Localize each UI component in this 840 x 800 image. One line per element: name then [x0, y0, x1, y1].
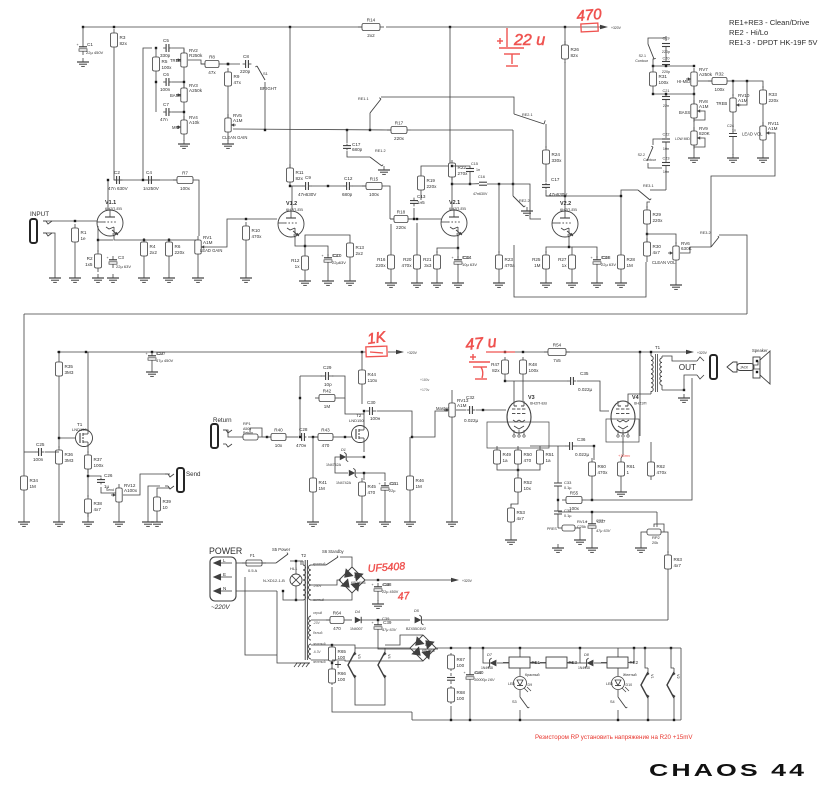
svg-text:3x3: 3x3	[424, 263, 432, 268]
wire C12-R15	[352, 185, 366, 187]
ground R41	[307, 518, 319, 526]
capacitor C24	[727, 124, 737, 141]
resistor R21	[423, 251, 440, 273]
svg-text:MID: MID	[172, 125, 180, 130]
svg-text:R18: R18	[397, 210, 406, 215]
wire RV8-RV9	[693, 118, 695, 131]
svg-text:0.5 A: 0.5 A	[248, 568, 257, 573]
svg-text:S1: S1	[263, 71, 269, 76]
svg-text:220x: 220x	[769, 98, 780, 103]
svg-text:470: 470	[368, 490, 376, 495]
potentiometer RV3	[170, 83, 203, 106]
wire R21 gnd	[436, 273, 438, 279]
ground R6	[163, 274, 175, 282]
wire V1.2 plate row	[290, 185, 303, 187]
capacitor C33	[554, 476, 572, 493]
svg-text:1n250V: 1n250V	[143, 186, 160, 191]
svg-text:1M: 1M	[324, 404, 331, 409]
relay contact RE3.1	[638, 184, 654, 200]
wire RV1 wiper to V1.2	[206, 219, 277, 247]
svg-text:1N4148: 1N4148	[481, 666, 493, 670]
svg-text:R61: R61	[627, 464, 636, 469]
svg-text:0.1µ: 0.1µ	[564, 486, 572, 490]
wire cath to C10	[305, 246, 328, 256]
capacitor C31	[379, 481, 399, 494]
wire L	[236, 562, 246, 564]
pentode V3	[507, 395, 547, 437]
junction	[331, 659, 333, 661]
junction	[304, 245, 306, 247]
svg-text:10x: 10x	[524, 486, 532, 491]
wire heat to D6	[385, 647, 410, 649]
red note 1K resistor	[366, 328, 388, 356]
resistor R63	[665, 551, 683, 573]
junction	[142, 179, 144, 181]
wire input sleeve	[43, 233, 55, 274]
wire C6-RV2b	[172, 81, 184, 83]
wire RE3.2 out	[719, 235, 747, 314]
wire R29-R30	[646, 228, 648, 242]
resistor R3	[111, 29, 128, 51]
wire V2 drop	[449, 27, 451, 163]
capacitor C36	[566, 437, 590, 457]
svg-text:C20: C20	[663, 57, 670, 61]
capacitor C23	[662, 157, 670, 175]
svg-text:4x7: 4x7	[653, 250, 661, 255]
capacitor C17b	[343, 142, 363, 152]
svg-text:Contour: Contour	[635, 59, 649, 63]
resistor R40	[267, 428, 290, 449]
svg-text:L: L	[223, 558, 226, 563]
svg-text:-6.3V: -6.3V	[313, 650, 321, 654]
wire ts2 to RE3.1	[650, 189, 666, 191]
wire ts2 busL	[652, 66, 654, 72]
svg-text:CLEAN GAIN: CLEAN GAIN	[222, 135, 247, 140]
resistor R2	[85, 250, 101, 272]
junction	[568, 246, 570, 248]
wire RE1 top	[519, 648, 521, 657]
svg-text:R4: R4	[150, 244, 156, 249]
potentiometer RV8	[679, 99, 709, 122]
capacitor C14	[452, 255, 472, 268]
svg-text:R17: R17	[395, 121, 404, 126]
capacitor C10	[322, 253, 342, 266]
arrow +320V supply	[600, 25, 622, 30]
wire R66 down	[332, 687, 412, 712]
junction	[673, 719, 675, 721]
wire C35 right	[577, 381, 609, 411]
wire relay rail right	[680, 648, 682, 720]
svg-text:белый: белый	[313, 631, 323, 635]
svg-text:R54: R54	[553, 343, 562, 348]
svg-text:RE1.1: RE1.1	[358, 97, 369, 101]
wire R34 gnd	[23, 494, 25, 518]
triode V2.1	[441, 200, 467, 237]
junction	[361, 351, 363, 353]
svg-text:3M3: 3M3	[65, 370, 74, 375]
label +170v	[420, 388, 430, 392]
svg-text:+: +	[372, 583, 374, 587]
svg-text:0.1µ: 0.1µ	[564, 514, 572, 518]
potentiometer RV2	[170, 48, 203, 71]
svg-text:+: +	[322, 254, 324, 258]
potentiometer RV5	[222, 113, 247, 140]
wire V1.2 cathode	[295, 237, 305, 252]
svg-text:4x7: 4x7	[94, 507, 102, 512]
wire RV9 gnd	[693, 145, 695, 154]
wire return tip	[223, 430, 240, 437]
wire tone feed	[143, 48, 152, 180]
svg-text:110x: 110x	[368, 378, 378, 383]
label R47	[0, 0, 1, 1]
resistor R9	[225, 68, 242, 90]
junction	[519, 647, 521, 649]
capacitor C2	[108, 170, 129, 191]
junction	[377, 619, 379, 621]
wire R52-R53	[511, 496, 518, 506]
svg-text:C38: C38	[382, 582, 390, 587]
svg-text:RE2 - Hi/Lo: RE2 - Hi/Lo	[729, 28, 768, 37]
wire B+ rail right	[386, 26, 600, 28]
svg-text:R41: R41	[319, 480, 328, 485]
svg-text:22µ 63V: 22µ 63V	[601, 262, 616, 267]
junction	[639, 351, 641, 353]
svg-text:820K: 820K	[699, 131, 711, 136]
svg-text:C14: C14	[462, 255, 470, 260]
capacitor C15	[466, 162, 480, 172]
wire C17 out	[546, 190, 565, 196]
relay contact RE2.2	[513, 130, 530, 207]
svg-text:C7: C7	[163, 102, 169, 107]
wire plate out row	[546, 195, 620, 197]
wire R28 gnd	[620, 273, 622, 279]
svg-text:R67: R67	[457, 657, 466, 662]
svg-text:RE1: RE1	[532, 660, 541, 665]
svg-text:R11: R11	[296, 170, 305, 175]
wire RV10 top	[732, 81, 734, 96]
ground R16	[385, 279, 397, 287]
resistor R50	[515, 446, 533, 468]
wire C14 gnd	[457, 268, 459, 279]
svg-text:100x: 100x	[569, 506, 580, 511]
wire RV1 gnd	[197, 258, 199, 274]
wire RV13 wiper	[456, 409, 466, 411]
resistor R30	[644, 238, 662, 260]
switch S6 Standby	[322, 549, 345, 565]
svg-text:C5: C5	[163, 38, 169, 43]
ground C31	[379, 518, 391, 526]
svg-text:100: 100	[338, 677, 346, 682]
wire LED1 drop	[519, 668, 521, 676]
wire T1 prim bot	[640, 394, 651, 436]
junction	[564, 26, 566, 28]
svg-text:C22: C22	[663, 133, 670, 137]
svg-text:2x2: 2x2	[356, 251, 364, 256]
svg-text:R62: R62	[657, 464, 666, 469]
wire R7 to RV1 top	[197, 180, 199, 236]
svg-text:0.022µ: 0.022µ	[464, 418, 478, 423]
svg-text:A250k: A250k	[699, 72, 713, 77]
mosfet T2 LND150	[349, 413, 369, 443]
wire RV2-RV3	[183, 71, 185, 88]
wire V1.1 plate	[107, 180, 109, 210]
wire plate row	[114, 179, 160, 181]
wire R27 top	[569, 247, 572, 251]
wire T1 sec top	[662, 356, 697, 361]
svg-text:100x: 100x	[369, 192, 380, 197]
resistor R25	[532, 251, 549, 273]
plug JACK speaker	[727, 361, 760, 372]
wire fb left	[299, 376, 301, 437]
wire C26 out	[101, 487, 116, 493]
svg-text:R60: R60	[598, 464, 607, 469]
svg-text:C16: C16	[478, 175, 485, 179]
svg-text:-20V: -20V	[313, 621, 321, 625]
ground R10	[240, 274, 252, 282]
resistor R10	[243, 222, 263, 244]
wire R68 gnd	[450, 706, 452, 720]
wire sec to jack	[684, 375, 697, 390]
capacitor C41s	[447, 673, 455, 684]
wire R2-C3 link	[98, 239, 113, 241]
svg-text:1н: 1н	[476, 168, 480, 172]
wire RP2 to R63	[666, 532, 668, 553]
svg-text:R55: R55	[570, 491, 579, 496]
relay contact RE1.1	[358, 97, 381, 130]
svg-text:R63: R63	[674, 557, 683, 562]
svg-text:C26: C26	[104, 473, 113, 478]
wire C5-RV2	[172, 48, 184, 53]
ground C10	[322, 277, 334, 285]
junction	[522, 351, 524, 353]
svg-text:C9: C9	[305, 175, 311, 180]
svg-text:220x: 220x	[394, 136, 405, 141]
wire R4 gnd	[143, 260, 145, 274]
svg-text:зеленый: зеленый	[313, 660, 326, 664]
resistor R15	[362, 177, 386, 198]
svg-text:LED: LED	[508, 682, 515, 686]
junction	[517, 469, 519, 471]
wire bias line	[378, 619, 410, 621]
junction	[646, 233, 648, 235]
label C37	[596, 518, 611, 533]
svg-text:LEAD VOL: LEAD VOL	[742, 132, 763, 137]
svg-text:R12: R12	[291, 258, 300, 263]
wire C16 lead L	[470, 183, 479, 185]
svg-text:C19: C19	[663, 37, 670, 41]
svg-text:100x: 100x	[94, 463, 105, 468]
svg-text:A1M: A1M	[699, 104, 709, 109]
svg-text:R20: R20	[403, 257, 412, 262]
svg-text:R44: R44	[368, 372, 377, 377]
junction	[82, 26, 84, 28]
wire R35 top	[58, 352, 60, 358]
switch S2.1	[635, 44, 656, 63]
svg-text:1M: 1M	[319, 486, 326, 491]
junction	[155, 47, 157, 49]
capacitor C6	[160, 72, 172, 92]
svg-text:100n: 100n	[33, 457, 44, 462]
svg-text:1N4007: 1N4007	[350, 627, 363, 631]
capacitor C7	[160, 102, 172, 122]
svg-text:C3: C3	[118, 255, 124, 260]
svg-text:47µ 63V: 47µ 63V	[596, 529, 611, 533]
svg-text:1M: 1M	[534, 263, 541, 268]
svg-text:R51: R51	[546, 452, 555, 457]
svg-text:R26: R26	[571, 47, 580, 52]
svg-text:R16: R16	[377, 257, 386, 262]
junction	[74, 220, 76, 222]
svg-text:RE3.1: RE3.1	[643, 184, 654, 188]
wire B+ rail left	[83, 26, 362, 28]
wire grid V2.1	[390, 218, 441, 220]
fuse F1	[242, 553, 266, 573]
wire R30 bot	[646, 260, 648, 262]
svg-text:C31: C31	[389, 481, 397, 486]
ground RV11	[757, 154, 769, 162]
wire sec -230V	[311, 580, 341, 585]
svg-text:+: +	[107, 256, 109, 260]
wire R33-RV11	[762, 108, 764, 126]
wire RP2 gnd	[641, 532, 643, 544]
ground R46	[404, 518, 416, 526]
wire R23 gnd	[498, 273, 500, 279]
svg-text:C24: C24	[727, 124, 734, 128]
capacitor C25	[33, 442, 45, 462]
potentiometer RV7	[677, 67, 713, 90]
wire T1 sec bot	[662, 389, 684, 391]
svg-text:A1M: A1M	[768, 126, 778, 131]
wire R48 to plate	[522, 377, 524, 401]
resistor R1	[72, 224, 87, 246]
wire ts1 bus	[155, 48, 157, 57]
junction	[183, 81, 185, 83]
label C31	[389, 481, 397, 493]
svg-text:+: +	[372, 621, 374, 625]
wire R46 top	[409, 437, 411, 472]
svg-text:R43: R43	[321, 428, 330, 433]
junction	[151, 351, 153, 353]
note RE functions	[729, 18, 818, 47]
svg-text:R14: R14	[367, 18, 376, 23]
wire D7 left	[483, 648, 489, 663]
wire fb to drain	[345, 398, 364, 414]
svg-text:47н630V: 47н630V	[298, 192, 317, 197]
wire ts2 busL2	[652, 86, 654, 94]
svg-text:1: 1	[627, 470, 630, 475]
junction	[469, 183, 471, 185]
junction	[647, 719, 649, 721]
svg-text:+: +	[452, 256, 454, 260]
resistor R20	[402, 251, 421, 273]
relay coil RE3	[540, 657, 578, 668]
svg-text:HL1: HL1	[290, 566, 298, 571]
svg-text:+15mv: +15mv	[618, 453, 630, 458]
potentiometer RV4	[172, 115, 200, 138]
svg-text:C18: C18	[601, 255, 609, 260]
ground C18	[591, 279, 603, 287]
junction	[683, 389, 685, 391]
svg-text:V4: V4	[387, 654, 391, 659]
capacitor C29	[321, 365, 334, 387]
ground R20	[411, 279, 423, 287]
ground R1	[69, 274, 81, 282]
wire R64-D4	[348, 619, 352, 621]
svg-text:D9: D9	[528, 683, 533, 687]
svg-text:47x: 47x	[234, 80, 242, 85]
wire R1 gnd	[74, 246, 76, 274]
svg-text:C2: C2	[114, 170, 120, 175]
svg-text:R15: R15	[370, 177, 379, 182]
wire T1 prim top	[650, 351, 652, 353]
svg-text:TREB: TREB	[170, 58, 181, 63]
resistor R48	[520, 357, 540, 377]
svg-text:R38: R38	[94, 501, 103, 506]
svg-text:470: 470	[524, 458, 532, 463]
wire C18 gnd	[596, 268, 598, 279]
resistor R38	[85, 495, 103, 517]
triode V2.2	[552, 201, 578, 238]
ground ts2	[688, 154, 700, 162]
wire RV6 wiper out	[680, 247, 711, 253]
wire R20 gnd	[416, 273, 418, 279]
wire C20 bot	[665, 65, 667, 67]
svg-text:RE2.2: RE2.2	[519, 199, 530, 203]
junction	[295, 560, 297, 562]
wire C37 gnd	[591, 532, 593, 544]
resistor R45	[359, 478, 377, 500]
wire C27 gnd	[151, 364, 153, 368]
svg-text:C40: C40	[474, 670, 482, 675]
junction	[449, 26, 451, 28]
svg-text:47н630V: 47н630V	[473, 192, 488, 196]
wire C17b to RE1.2	[347, 151, 370, 157]
svg-text:47: 47	[397, 590, 411, 603]
resistor R55	[562, 491, 586, 512]
wire R53 gnd	[510, 526, 512, 536]
resistor R12	[291, 252, 308, 274]
wire C40 gnd	[469, 683, 471, 720]
svg-text:47µ 450V: 47µ 450V	[156, 358, 174, 363]
svg-text:100n: 100n	[160, 87, 171, 92]
junction	[498, 183, 500, 185]
wire R45 gnd	[361, 500, 363, 518]
svg-text:+180v: +180v	[420, 378, 430, 382]
svg-text:C27: C27	[156, 351, 164, 356]
wire RV14 gnd	[579, 528, 581, 536]
svg-text:470x: 470x	[252, 234, 263, 239]
resistor R49	[494, 446, 512, 468]
capacitor C3	[107, 255, 125, 268]
svg-text:47µ 63V: 47µ 63V	[382, 628, 397, 632]
speaker	[752, 348, 770, 384]
wire R46 gnd	[409, 494, 411, 518]
LED D10	[606, 673, 637, 692]
resistor R64	[326, 611, 348, 632]
ground C34 area	[552, 544, 564, 552]
svg-text:Contour: Contour	[643, 158, 657, 162]
junction	[58, 451, 60, 453]
relay contact RE1.2	[370, 149, 386, 166]
ground tone1	[178, 140, 190, 148]
wire R50-R52	[517, 468, 519, 476]
svg-text:100x: 100x	[162, 65, 173, 70]
relay coil RE2	[601, 657, 639, 668]
svg-text:1K: 1K	[366, 328, 388, 348]
svg-text:0.022µ: 0.022µ	[578, 387, 592, 392]
capacitor C19	[662, 37, 670, 55]
resistor R47	[491, 357, 508, 377]
